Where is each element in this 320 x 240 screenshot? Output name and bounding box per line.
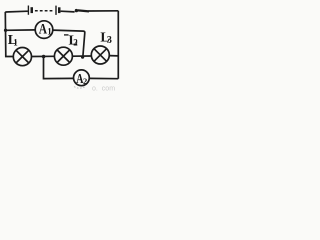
svg-text:3: 3 xyxy=(107,35,112,46)
svg-text:1: 1 xyxy=(47,26,52,36)
svg-text:o. com: o. com xyxy=(92,86,115,93)
svg-text:2: 2 xyxy=(73,38,78,48)
svg-text:2: 2 xyxy=(83,76,87,86)
svg-text:1: 1 xyxy=(13,37,18,47)
svg-text:A: A xyxy=(39,20,48,37)
